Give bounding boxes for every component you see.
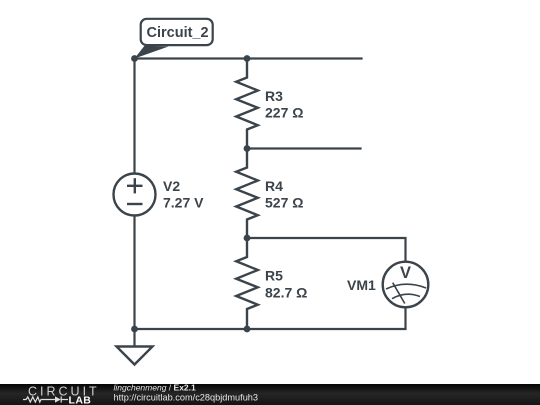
footer logo CIRCUIT LAB <box>23 384 100 405</box>
footer credit text <box>114 383 259 403</box>
node junction dot top-left <box>131 55 138 62</box>
svg-text:LAB: LAB <box>69 395 92 405</box>
voltage source V2 <box>114 174 156 216</box>
footer bar <box>0 384 540 405</box>
svg-text:Circuit_2: Circuit_2 <box>147 25 209 41</box>
svg-text:R5: R5 <box>265 268 283 284</box>
svg-text:227 Ω: 227 Ω <box>265 105 303 121</box>
wire ground stub <box>133 329 135 347</box>
resistor R5 <box>236 238 258 329</box>
resistor R4 <box>236 149 258 239</box>
svg-text:527 Ω: 527 Ω <box>265 195 303 211</box>
svg-text:V2: V2 <box>163 178 180 194</box>
wire left vertical V2 bottom <box>133 215 135 329</box>
label R3 value <box>265 88 303 121</box>
label R4 value <box>265 178 303 211</box>
svg-text:lingchenmeng / Ex2.1: lingchenmeng / Ex2.1 <box>114 383 197 393</box>
svg-text:R4: R4 <box>265 178 283 194</box>
svg-text:R3: R3 <box>265 88 283 104</box>
wire left vertical V2 top <box>133 59 135 174</box>
label R5 value <box>265 268 307 301</box>
voltmeter VM1 <box>383 262 429 308</box>
label V2 value <box>163 178 204 211</box>
svg-text:http://circuitlab.com/c28qbjdm: http://circuitlab.com/c28qbjdmufuh3 <box>114 393 259 403</box>
resistor R3 <box>236 59 258 149</box>
node junction dot bottom-left <box>131 326 138 333</box>
node junction dot bottom R5 <box>244 326 251 333</box>
svg-text:7.27 V: 7.27 V <box>163 195 204 211</box>
node junction dot R3-R4 <box>244 145 251 152</box>
svg-text:VM1: VM1 <box>347 277 376 293</box>
wire middle horizontal (R3-R4 junction) <box>247 147 361 149</box>
svg-text:V: V <box>400 264 411 282</box>
wire top horizontal net <box>135 57 362 59</box>
node junction dot top R3 <box>244 55 251 62</box>
node label Circuit_2 flag <box>135 19 213 59</box>
node junction dot R4-R5 <box>244 235 251 242</box>
wire R4-R5 junction to voltmeter top <box>247 238 406 262</box>
ground <box>117 347 153 365</box>
wire bottom horizontal net <box>135 308 406 330</box>
svg-text:82.7 Ω: 82.7 Ω <box>265 285 307 301</box>
